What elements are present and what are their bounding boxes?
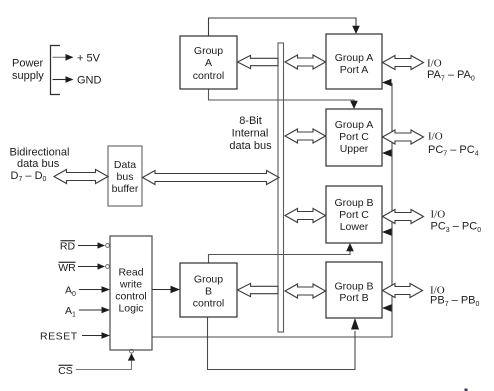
wire: Group A control bottom to Port C Upper top (209, 89, 355, 102)
svg-text:PB7 – PB0: PB7 – PB0 (430, 295, 480, 309)
box: Group A Port C Upper (326, 109, 382, 166)
svg-text:A: A (205, 57, 212, 69)
double arrow: Port A to I/O (383, 56, 424, 70)
svg-text:D7 – D0: D7 – D0 (11, 170, 47, 183)
box: Read write control Logic (110, 236, 152, 350)
double arrow: Port C Upper to I/O (383, 130, 424, 144)
svg-text:Group B: Group B (334, 197, 373, 209)
double arrow: external data bus to buffer (54, 170, 108, 184)
internal data bus (vertical) (278, 43, 284, 332)
wire: Group A control top to Port A top (209, 18, 357, 36)
double arrow: Port C Lower to I/O (383, 210, 424, 224)
svg-text:I/O: I/O (428, 131, 443, 143)
svg-text:Lower: Lower (340, 221, 369, 233)
svg-text:RESET: RESET (40, 331, 78, 343)
box: Data bus buffer (108, 146, 142, 206)
svg-text:Bidirectional: Bidirectional (10, 147, 70, 159)
svg-text:A0: A0 (65, 285, 76, 299)
box: Group B control (180, 263, 237, 317)
double arrow: bus to Port B (285, 284, 326, 298)
svg-text:B: B (205, 286, 212, 298)
svg-text:Upper: Upper (340, 143, 369, 155)
wire: Group B control bottom to Port B bottom (208, 317, 356, 370)
box: Group A Port A (326, 34, 382, 89)
stray mark bottom right (465, 389, 468, 391)
svg-text:Port B: Port B (339, 292, 368, 304)
svg-text:Group: Group (194, 274, 223, 286)
svg-text:control: control (193, 70, 225, 82)
+5V arrow (53, 56, 67, 58)
single arrow: bus to Group B control (238, 283, 279, 296)
svg-text:control: control (193, 298, 225, 310)
power supply bracket (51, 46, 61, 95)
svg-text:write: write (119, 279, 142, 291)
svg-text:data bus: data bus (17, 158, 60, 170)
arrow: read write logic to Group B control (152, 289, 171, 291)
svg-text:I/O: I/O (431, 209, 446, 221)
single arrow: bus to Group A control (238, 55, 279, 68)
svg-text:I/O: I/O (427, 58, 442, 70)
svg-text:+ 5V: + 5V (77, 53, 101, 65)
double arrow: bus to Port C Lower (285, 209, 326, 223)
svg-text:control: control (115, 291, 147, 303)
svg-text:Group: Group (194, 45, 223, 57)
svg-text:supply: supply (12, 70, 44, 82)
svg-text:Power: Power (12, 58, 44, 70)
double arrow: bus to Port A (285, 55, 326, 69)
box: Group B Port C Lower (326, 186, 382, 243)
double arrow: Port B to I/O (383, 284, 423, 298)
double arrow: bus to Port C Upper (285, 129, 326, 143)
svg-text:Group A: Group A (335, 52, 374, 64)
svg-text:buffer: buffer (112, 183, 139, 195)
svg-text:RD: RD (60, 241, 76, 253)
arrow into Port C Lower right edge (382, 228, 392, 235)
svg-text:PA7 – PA0: PA7 – PA0 (427, 69, 475, 83)
wire: Group B control top to Port C Lower bottom (209, 250, 351, 263)
arrow into Port A right edge (382, 79, 392, 86)
svg-text:data bus: data bus (229, 140, 272, 152)
wire: read write logic to port feedback line (152, 83, 392, 337)
svg-text:PC3 – PC0: PC3 – PC0 (431, 221, 482, 235)
GND arrow (53, 79, 67, 81)
svg-text:Logic: Logic (118, 303, 143, 315)
svg-text:8-Bit: 8-Bit (239, 115, 262, 127)
svg-text:Data: Data (114, 159, 136, 171)
svg-text:Port C: Port C (339, 131, 369, 143)
arrow into Port C Upper right edge (382, 149, 392, 156)
svg-text:WR: WR (58, 262, 76, 274)
box: Group A control (180, 36, 237, 89)
svg-text:Port C: Port C (339, 209, 369, 221)
svg-text:Port A: Port A (340, 64, 369, 76)
svg-text:GND: GND (77, 75, 102, 87)
svg-text:Group A: Group A (335, 119, 374, 131)
svg-text:Group B: Group B (334, 281, 373, 293)
svg-text:Internal: Internal (232, 128, 269, 140)
svg-text:Read: Read (118, 267, 143, 279)
box: Group B Port B (326, 262, 382, 318)
double arrow: buffer to internal bus (143, 171, 280, 185)
arrow into Port B right edge (382, 304, 392, 311)
svg-text:bus: bus (117, 171, 134, 183)
svg-text:CS: CS (58, 365, 73, 377)
svg-text:A1: A1 (65, 305, 76, 319)
svg-text:PC7 – PC4: PC7 – PC4 (428, 144, 479, 158)
